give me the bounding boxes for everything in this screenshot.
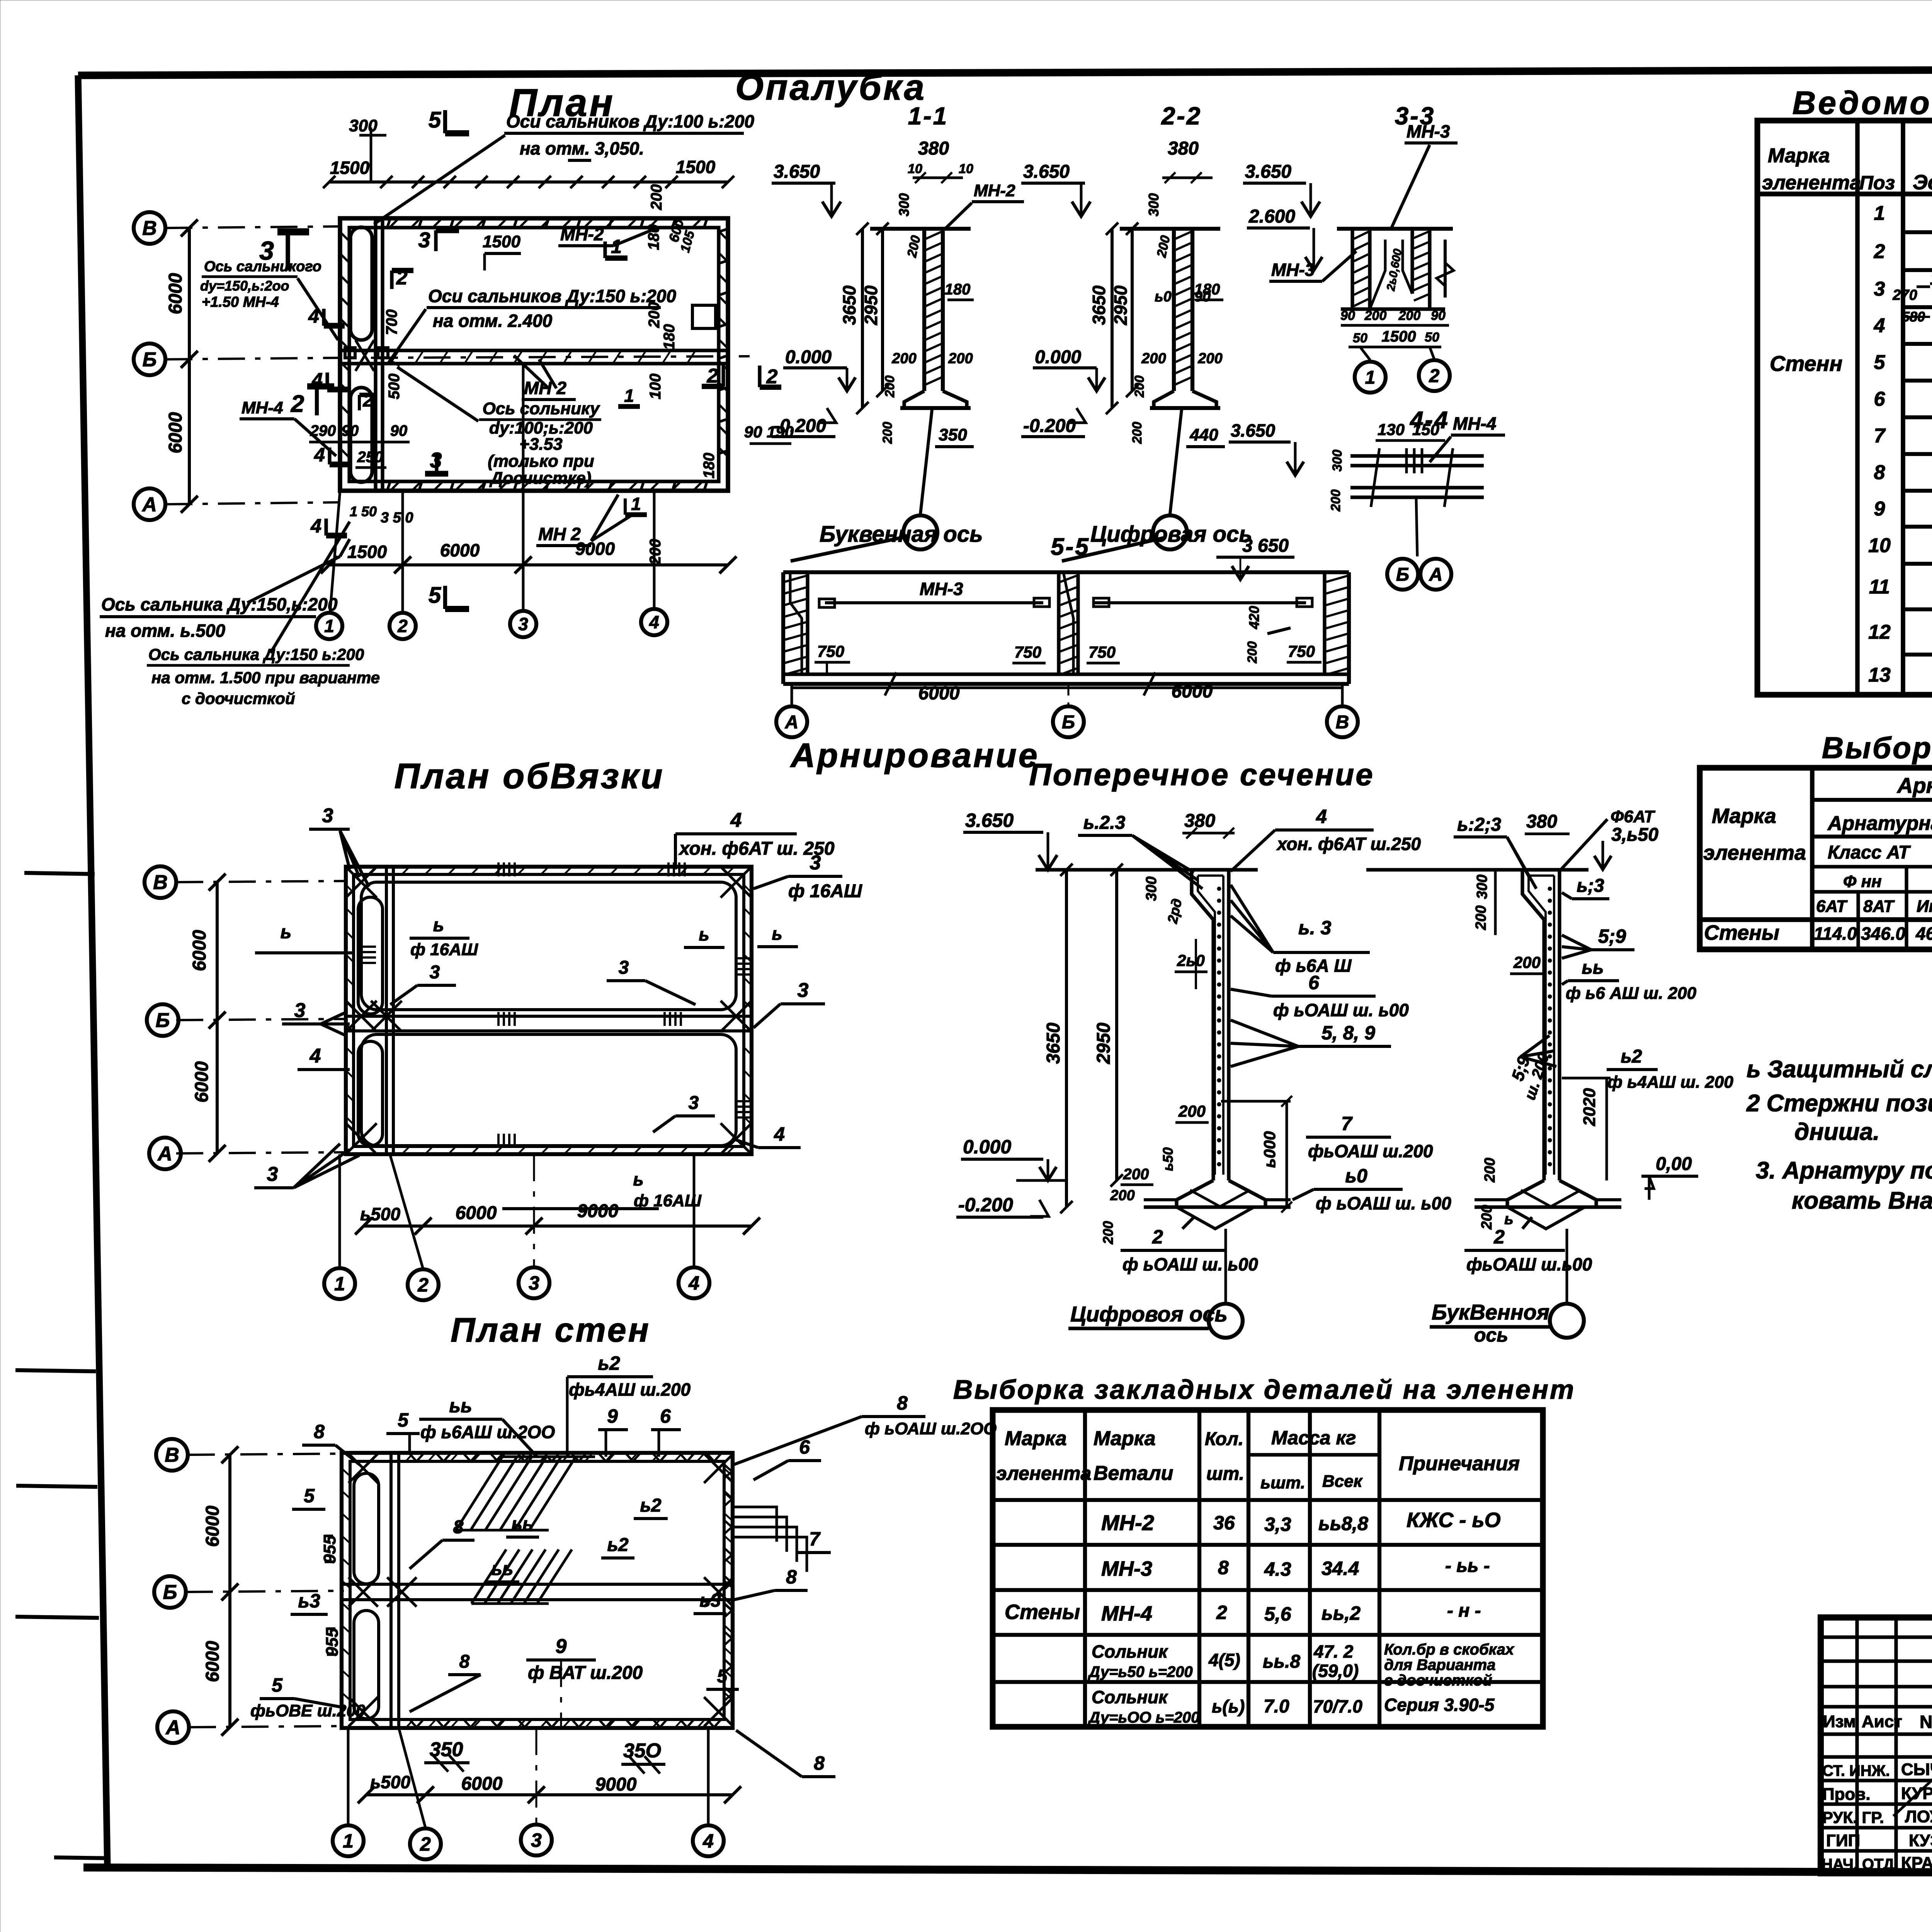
svg-text:Поперечное сечение: Поперечное сечение bbox=[1029, 757, 1374, 792]
svg-text:3.650: 3.650 bbox=[1023, 162, 1070, 182]
svg-text:фьОАШ ш.200: фьОАШ ш.200 bbox=[1308, 1141, 1433, 1161]
obvyazki left dim 6000 6000 bbox=[216, 882, 219, 1153]
svg-text:фьОВЕ ш.200: фьОВЕ ш.200 bbox=[250, 1701, 366, 1720]
table zakladnye header split massa bbox=[1248, 1453, 1379, 1456]
svg-text:ф 16АШ: ф 16АШ bbox=[634, 1191, 702, 1210]
svg-text:380: 380 bbox=[1168, 138, 1199, 159]
plan top dimension line bbox=[329, 180, 728, 184]
obvyazki corner braces bbox=[346, 867, 377, 898]
obvyazki wall tick combs bbox=[497, 862, 500, 876]
svg-text:Ведомость стержней на эленен: Ведомость стержней на эленент bbox=[1793, 85, 1932, 121]
svg-text:ф ь6 АШ ш. 200: ф ь6 АШ ш. 200 bbox=[1566, 984, 1697, 1003]
svg-text:МН-2: МН-2 bbox=[560, 224, 604, 244]
obvyazki axis circle B bbox=[147, 1004, 179, 1036]
plan axis circle B bbox=[134, 344, 165, 375]
svg-text:4: 4 bbox=[730, 809, 742, 832]
svg-text:Опалубка: Опалубка bbox=[735, 67, 926, 107]
svg-text:460.0: 460.0 bbox=[1915, 923, 1932, 944]
svg-text:200: 200 bbox=[646, 302, 663, 328]
svg-text:8: 8 bbox=[1218, 1557, 1229, 1578]
svg-text:2 Стержни позиций 7, ьа 2: 2 Стержни позиций 7, ьа 2 закладываются … bbox=[1746, 1090, 1932, 1117]
plansten wall hatch left bbox=[342, 1468, 350, 1476]
section 5-5 break marks on bottom dim bbox=[885, 672, 896, 696]
svg-text:2: 2 bbox=[1216, 1602, 1227, 1623]
svg-text:2: 2 bbox=[291, 391, 304, 417]
svg-text:6: 6 bbox=[1308, 972, 1320, 993]
svg-text:200: 200 bbox=[1245, 641, 1260, 664]
svg-text:10: 10 bbox=[959, 162, 973, 176]
svg-text:440: 440 bbox=[1189, 425, 1218, 444]
plan tank outer wall rectangle bbox=[340, 218, 728, 491]
svg-text:А: А bbox=[785, 712, 799, 733]
plansten axis circle B bbox=[154, 1576, 186, 1608]
svg-text:5, 8, 9: 5, 8, 9 bbox=[1321, 1022, 1375, 1044]
svg-text:0.000: 0.000 bbox=[963, 1136, 1011, 1158]
svg-text:ь: ь bbox=[772, 923, 782, 944]
svg-text:МН-4: МН-4 bbox=[1101, 1602, 1152, 1625]
svg-text:346.0: 346.0 bbox=[1861, 923, 1906, 944]
section 1-1 foot bbox=[904, 391, 967, 408]
svg-text:1500: 1500 bbox=[483, 232, 520, 251]
svg-text:180: 180 bbox=[701, 453, 718, 479]
section 2-2 wall with hatch bbox=[1172, 229, 1176, 391]
svg-text:3.650: 3.650 bbox=[1231, 420, 1276, 440]
svg-text:200: 200 bbox=[883, 376, 897, 398]
table zakladnye horizontals bbox=[993, 1498, 1543, 1502]
svg-text:ь2: ь2 bbox=[607, 1535, 629, 1555]
svg-text:Ось сальника Ду:150 ь:200: Ось сальника Ду:150 ь:200 bbox=[148, 645, 364, 663]
svg-text:200: 200 bbox=[1110, 1187, 1134, 1204]
svg-text:500: 500 bbox=[386, 374, 403, 400]
plansten diagonal rebar bundle middle bbox=[471, 1549, 506, 1604]
section 4-4 axis circle A bbox=[1420, 559, 1451, 590]
svg-text:ГИП: ГИП bbox=[1826, 1831, 1860, 1850]
svg-text:эленента: эленента bbox=[1703, 841, 1806, 864]
svg-text:Марка: Марка bbox=[1094, 1427, 1156, 1450]
plan dim 300 top left bbox=[359, 134, 386, 137]
plan axis circle A bbox=[134, 488, 165, 520]
svg-text:4: 4 bbox=[774, 1123, 785, 1145]
section 2-2 axis leader circle bbox=[1170, 410, 1182, 514]
section 1-1 dimension verticals 3650 2950 bbox=[861, 229, 864, 408]
svg-text:МН-4: МН-4 bbox=[241, 398, 283, 417]
plansten capsule bottom bbox=[354, 1611, 379, 1719]
svg-text:3 650: 3 650 bbox=[1242, 536, 1289, 556]
svg-text:ф 16АШ: ф 16АШ bbox=[410, 940, 478, 959]
plansten column circle 3 bbox=[521, 1825, 552, 1855]
svg-text:ф ь4АШ ш. 200: ф ь4АШ ш. 200 bbox=[1607, 1073, 1733, 1092]
svg-text:1: 1 bbox=[624, 386, 634, 406]
svg-text:ьь,2: ьь,2 bbox=[1321, 1602, 1361, 1624]
svg-text:Стены: Стены bbox=[1704, 921, 1779, 944]
svg-text:Серия 3.90-5: Серия 3.90-5 bbox=[1384, 1695, 1495, 1715]
svg-text:БукВенноя: БукВенноя bbox=[1432, 1300, 1549, 1324]
plan wall sleeve tick marks bottom wall bbox=[387, 481, 390, 491]
svg-text:ьь.8: ьь.8 bbox=[1263, 1651, 1300, 1672]
svg-text:1: 1 bbox=[324, 616, 334, 636]
svg-text:В: В bbox=[153, 871, 168, 894]
svg-text:350: 350 bbox=[939, 425, 967, 444]
svg-text:180: 180 bbox=[661, 324, 678, 350]
svg-text:200: 200 bbox=[1197, 350, 1222, 367]
svg-text:ь:2;3: ь:2;3 bbox=[1457, 815, 1501, 835]
svg-text:МН 2: МН 2 bbox=[524, 378, 566, 398]
svg-text:300: 300 bbox=[1330, 450, 1345, 472]
svg-text:200: 200 bbox=[891, 350, 916, 367]
svg-text:90: 90 bbox=[1194, 289, 1211, 305]
obvyazki bottom leaders to circles bbox=[338, 1154, 341, 1267]
section 5-5 middle wall bbox=[1057, 572, 1060, 674]
svg-text:4(5): 4(5) bbox=[1208, 1650, 1240, 1670]
svg-text:750: 750 bbox=[1088, 643, 1116, 661]
svg-text:NДОКУМ: NДОКУМ bbox=[1920, 1712, 1932, 1732]
svg-text:4: 4 bbox=[1316, 806, 1327, 827]
svg-text:А: А bbox=[141, 493, 157, 516]
section 2-2 foot bbox=[1154, 391, 1216, 408]
svg-text:Арнатурные изделия: Арнатурные изделия bbox=[1896, 773, 1932, 798]
svg-text:ф ь6АШ ш.2ОО: ф ь6АШ ш.2ОО bbox=[420, 1422, 555, 1442]
svg-text:2: 2 bbox=[1429, 366, 1440, 386]
svg-text:300: 300 bbox=[896, 193, 912, 216]
svg-text:дниша.: дниша. bbox=[1794, 1119, 1879, 1145]
svg-text:6: 6 bbox=[1874, 388, 1886, 410]
svg-text:50: 50 bbox=[1425, 330, 1439, 345]
svg-text:6000: 6000 bbox=[165, 273, 186, 314]
svg-text:4.3: 4.3 bbox=[1264, 1558, 1291, 1580]
svg-text:МН-4: МН-4 bbox=[1453, 413, 1496, 434]
plan left dimension line 6000/6000 bbox=[188, 228, 191, 504]
svg-text:ь500: ь500 bbox=[370, 1772, 410, 1792]
svg-text:ь500: ь500 bbox=[360, 1204, 400, 1224]
svg-text:10: 10 bbox=[908, 162, 922, 176]
svg-text:3: 3 bbox=[294, 999, 306, 1022]
svg-text:8: 8 bbox=[453, 1517, 464, 1537]
plansten column circle 1 bbox=[333, 1825, 364, 1856]
svg-text:3,3: 3,3 bbox=[1264, 1514, 1291, 1535]
svg-text:150: 150 bbox=[1412, 420, 1439, 439]
svg-text:3 5 0: 3 5 0 bbox=[381, 510, 413, 526]
svg-text:6000: 6000 bbox=[918, 683, 960, 704]
svg-text:70/7.0: 70/7.0 bbox=[1313, 1696, 1362, 1716]
svg-text:955: 955 bbox=[320, 1535, 339, 1564]
svg-text:Б: Б bbox=[163, 1581, 177, 1604]
plansten wall zigzag hatch bottom bbox=[410, 1719, 423, 1727]
svg-text:ь: ь bbox=[1504, 1211, 1514, 1228]
cross-section left dim verticals bbox=[1065, 870, 1068, 1207]
svg-text:ь.2.3: ь.2.3 bbox=[1083, 813, 1126, 833]
svg-text:Ось сольнику: Ось сольнику bbox=[483, 399, 600, 418]
svg-text:4: 4 bbox=[1874, 315, 1885, 337]
cross-section right wall bbox=[1542, 920, 1546, 1180]
svg-text:Арнирование: Арнирование bbox=[790, 736, 1039, 774]
section 4-4 axis circle B bbox=[1387, 559, 1418, 590]
svg-text:ь Защитный слой Бетона —: ь Защитный слой Бетона — 20 нн bbox=[1747, 1056, 1932, 1083]
svg-text:хон. ф6АТ ш.250: хон. ф6АТ ш.250 bbox=[1276, 834, 1421, 854]
plansten wall hatch right bbox=[724, 1468, 733, 1476]
svg-text:эленента: эленента bbox=[1762, 172, 1861, 194]
plan wall tick marks right wall bbox=[719, 229, 728, 232]
section 1-1 top slab line bbox=[870, 227, 971, 231]
svg-text:34.4: 34.4 bbox=[1321, 1558, 1359, 1579]
table vyborka metalla horizontals bbox=[1812, 798, 1932, 802]
plansten right stepped bars bbox=[733, 1507, 777, 1542]
svg-text:6000: 6000 bbox=[165, 412, 186, 453]
svg-text:8АТ: 8АТ bbox=[1863, 897, 1895, 916]
svg-text:1 50: 1 50 bbox=[350, 503, 377, 519]
svg-text:Аист: Аист bbox=[1862, 1712, 1902, 1731]
svg-text:на отм. ь.500: на отм. ь.500 bbox=[105, 621, 225, 641]
svg-text:3.650: 3.650 bbox=[965, 810, 1014, 831]
svg-text:Б: Б bbox=[143, 349, 157, 371]
svg-text:ьь: ьь bbox=[512, 1514, 534, 1534]
section 2-2 top slab line bbox=[1120, 227, 1220, 231]
svg-text:ф ьОАШ ш. ь00: ф ьОАШ ш. ь00 bbox=[1316, 1193, 1451, 1213]
section 2-2 dimension verticals 3650 2950 bbox=[1111, 229, 1114, 408]
svg-text:В: В bbox=[165, 1444, 179, 1466]
plan bottom dimension line bbox=[329, 563, 728, 566]
svg-text:+3.53: +3.53 bbox=[519, 435, 562, 454]
plansten outer rectangle walls bbox=[342, 1453, 733, 1728]
obvyazki wall hatch right bbox=[744, 885, 752, 893]
plan axis dash-dot lines bbox=[165, 226, 340, 228]
plansten column circle 2 bbox=[410, 1828, 441, 1859]
svg-text:НАЧ. ОТД.: НАЧ. ОТД. bbox=[1821, 1856, 1898, 1873]
svg-text:6000: 6000 bbox=[189, 930, 210, 971]
svg-text:3: 3 bbox=[689, 1093, 699, 1113]
plansten internal vertical wall bbox=[389, 1453, 393, 1728]
table zakladnye outer bbox=[993, 1410, 1543, 1727]
titleblock outer bbox=[1821, 1617, 1932, 1873]
plansten left dim 6000 6000 bbox=[228, 1455, 231, 1727]
svg-text:300: 300 bbox=[1474, 874, 1490, 899]
svg-text:6000: 6000 bbox=[456, 1203, 497, 1223]
cross-section right axis circle bbox=[1566, 1229, 1568, 1303]
svg-text:200: 200 bbox=[1178, 1102, 1206, 1120]
svg-text:50: 50 bbox=[1353, 331, 1367, 345]
plan column circle 3 bbox=[510, 611, 536, 637]
svg-text:Марка: Марка bbox=[1005, 1427, 1067, 1450]
svg-text:ф ьОАШ ш.2ОО: ф ьОАШ ш.2ОО bbox=[865, 1419, 997, 1438]
svg-text:35О: 35О bbox=[623, 1740, 661, 1762]
obvyazki axis circle V bbox=[145, 866, 176, 898]
svg-text:90: 90 bbox=[1340, 308, 1355, 323]
svg-text:ьь: ьь bbox=[492, 1559, 514, 1579]
obvyazki inner cell outline bottom bbox=[361, 1034, 736, 1146]
plansten internal horizontal wall bbox=[342, 1583, 733, 1586]
svg-text:5: 5 bbox=[429, 583, 441, 608]
svg-text:Итого: Итого bbox=[1917, 897, 1932, 916]
svg-text:8: 8 bbox=[786, 1566, 797, 1588]
svg-text:5,6: 5,6 bbox=[1264, 1603, 1292, 1625]
svg-text:В: В bbox=[142, 217, 157, 240]
cross-section left wall bbox=[1211, 920, 1215, 1180]
svg-text:5: 5 bbox=[717, 1666, 728, 1687]
cross-section left wall head bbox=[1192, 870, 1213, 920]
svg-text:2: 2 bbox=[417, 1274, 429, 1296]
svg-text:9000: 9000 bbox=[595, 1774, 637, 1795]
svg-text:ф ьОАШ ш. ь00: ф ьОАШ ш. ь00 bbox=[1273, 1000, 1409, 1020]
svg-text:ь2: ь2 bbox=[1621, 1046, 1642, 1067]
svg-text:ь3: ь3 bbox=[699, 1590, 721, 1611]
titleblock left columns bbox=[1855, 1617, 1859, 1873]
plansten bottom dim line bbox=[366, 1793, 733, 1796]
svg-text:2950: 2950 bbox=[861, 285, 881, 325]
plan column circle 2 bbox=[389, 613, 416, 639]
svg-text:Эскиз или сечение: Эскиз или сечение bbox=[1913, 171, 1932, 194]
svg-text:700: 700 bbox=[383, 310, 400, 335]
svg-text:Стенн: Стенн bbox=[1770, 351, 1842, 376]
svg-text:6000: 6000 bbox=[202, 1641, 223, 1682]
svg-text:200: 200 bbox=[1513, 953, 1541, 971]
section 5-5 right end wall bbox=[1347, 572, 1351, 684]
svg-text:фь4АШ ш.200: фь4АШ ш.200 bbox=[569, 1379, 690, 1400]
svg-text:-0.200: -0.200 bbox=[774, 416, 826, 436]
svg-text:5;9: 5;9 bbox=[1598, 925, 1626, 947]
svg-text:8: 8 bbox=[814, 1752, 825, 1774]
svg-text:8: 8 bbox=[459, 1651, 470, 1672]
svg-text:эленента: эленента bbox=[996, 1463, 1091, 1484]
svg-text:114.0: 114.0 bbox=[1814, 923, 1857, 944]
plan axis circle V bbox=[134, 212, 165, 244]
cross-section right rebar dots bbox=[1548, 887, 1552, 891]
obvyazki internal horizontal wall bbox=[346, 1015, 752, 1018]
svg-text:3: 3 bbox=[529, 1272, 539, 1294]
plansten axis dash-dot lines bbox=[188, 1454, 344, 1455]
svg-text:130: 130 bbox=[1378, 420, 1405, 439]
svg-text:270: 270 bbox=[1892, 287, 1917, 303]
svg-text:МН-3: МН-3 bbox=[1101, 1557, 1152, 1580]
svg-text:380: 380 bbox=[918, 138, 949, 159]
plan left column capsule opening top bbox=[350, 227, 372, 340]
svg-text:4: 4 bbox=[310, 1045, 321, 1067]
svg-text:8: 8 bbox=[314, 1421, 325, 1442]
svg-text:9: 9 bbox=[556, 1635, 567, 1658]
svg-text:12: 12 bbox=[1868, 621, 1891, 643]
section 3-3 grid circle 2 bbox=[1430, 347, 1434, 359]
svg-text:-0.200: -0.200 bbox=[958, 1194, 1013, 1216]
svg-text:-0.200: -0.200 bbox=[1023, 416, 1076, 436]
svg-text:1500: 1500 bbox=[676, 157, 716, 177]
svg-text:ьшт.: ьшт. bbox=[1260, 1473, 1305, 1492]
section 4-4 slab plan lines bbox=[1350, 454, 1484, 457]
svg-text:Б: Б bbox=[156, 1009, 170, 1032]
svg-text:ь: ь bbox=[699, 924, 709, 944]
svg-text:ь000: ь000 bbox=[1260, 1131, 1279, 1168]
obvyazki wall hatch top bbox=[402, 867, 410, 874]
svg-text:9000: 9000 bbox=[575, 539, 615, 559]
svg-text:ь: ь bbox=[281, 922, 292, 942]
svg-text:200: 200 bbox=[1132, 376, 1147, 398]
svg-text:2: 2 bbox=[1493, 1226, 1505, 1248]
obvyazki capsule bottom bbox=[358, 1041, 383, 1146]
svg-text:3: 3 bbox=[259, 236, 274, 265]
svg-text:на отм. 3,050.: на отм. 3,050. bbox=[520, 138, 644, 158]
svg-text:на отм. 1.500 при варианте: на отм. 1.500 при варианте bbox=[151, 668, 380, 687]
svg-text:200: 200 bbox=[1364, 308, 1387, 323]
svg-text:380: 380 bbox=[1526, 811, 1557, 832]
svg-text:200: 200 bbox=[1479, 1205, 1495, 1230]
svg-text:750: 750 bbox=[1288, 642, 1315, 660]
svg-text:Сольник: Сольник bbox=[1092, 1641, 1168, 1662]
plan wall hatch mid bbox=[390, 350, 399, 364]
svg-text:5: 5 bbox=[304, 1485, 315, 1507]
plansten wall zigzag hatch right bbox=[724, 1464, 732, 1478]
svg-text:А: А bbox=[165, 1716, 180, 1739]
svg-text:2-2: 2-2 bbox=[1161, 102, 1202, 130]
svg-text:Принечания: Принечания bbox=[1399, 1452, 1520, 1475]
svg-text:3: 3 bbox=[798, 979, 809, 1002]
svg-text:90: 90 bbox=[390, 422, 408, 439]
svg-text:200: 200 bbox=[1482, 1158, 1498, 1182]
svg-text:180: 180 bbox=[645, 224, 662, 250]
table vyborka metalla verticals bbox=[1810, 768, 1815, 949]
plan junction openings at B wall bbox=[345, 348, 355, 358]
svg-text:200: 200 bbox=[1100, 1221, 1116, 1245]
section 5-5 axis circle A bbox=[791, 684, 793, 706]
obvyazki internal vertical wall bbox=[385, 867, 388, 1154]
obvyazki wall hatch left bbox=[346, 885, 354, 893]
plansten wall hatch top bbox=[406, 1453, 413, 1461]
svg-text:36: 36 bbox=[1213, 1512, 1235, 1534]
svg-text:РУК. ГР.: РУК. ГР. bbox=[1822, 1808, 1884, 1827]
svg-text:5: 5 bbox=[272, 1674, 283, 1696]
section 5-5 left end wall bbox=[781, 572, 785, 684]
plansten axis circle A bbox=[157, 1711, 189, 1743]
svg-text:1500: 1500 bbox=[1382, 328, 1416, 345]
svg-text:ь2: ь2 bbox=[640, 1495, 662, 1516]
svg-text:ь: ь bbox=[633, 1169, 643, 1189]
cross-section left foot bbox=[1177, 1180, 1213, 1207]
svg-text:10: 10 bbox=[1868, 534, 1891, 557]
svg-text:КУЗНЕЦОВ: КУЗНЕЦОВ bbox=[1909, 1831, 1932, 1850]
svg-text:2.600: 2.600 bbox=[1248, 206, 1295, 227]
svg-text:МН-3: МН-3 bbox=[920, 579, 963, 599]
svg-text:3: 3 bbox=[322, 804, 333, 827]
svg-text:Марка: Марка bbox=[1768, 145, 1830, 167]
svg-text:Ось сальника Ду:150,ь:200: Ось сальника Ду:150,ь:200 bbox=[101, 594, 338, 614]
svg-text:ф 16АШ: ф 16АШ bbox=[788, 881, 862, 901]
plan wall hatch right bbox=[719, 232, 728, 240]
svg-text:6000: 6000 bbox=[440, 540, 480, 560]
svg-text:9: 9 bbox=[1874, 498, 1885, 520]
plansten bottom leaders to circles bbox=[347, 1728, 350, 1825]
plansten column circle 4 bbox=[693, 1825, 724, 1856]
svg-text:3: 3 bbox=[267, 1163, 278, 1185]
svg-text:Выборка закладных деталей на э: Выборка закладных деталей на эленент bbox=[953, 1374, 1576, 1405]
plan wall hatch left bbox=[340, 232, 349, 240]
svg-text:4: 4 bbox=[688, 1272, 699, 1294]
svg-text:3650: 3650 bbox=[1089, 285, 1109, 325]
table zakladnye verticals bbox=[1083, 1410, 1087, 1727]
svg-text:3650: 3650 bbox=[1043, 1022, 1064, 1064]
svg-text:3: 3 bbox=[1874, 278, 1885, 300]
svg-text:Поз: Поз bbox=[1859, 172, 1895, 194]
svg-text:3.650: 3.650 bbox=[1245, 162, 1291, 182]
svg-text:dу=150,ь:2оо: dу=150,ь:2оо bbox=[200, 278, 289, 294]
svg-text:300: 300 bbox=[1143, 876, 1160, 901]
svg-text:2: 2 bbox=[1874, 240, 1885, 263]
plan internal vertical wall of left column bbox=[374, 218, 377, 491]
plan left column capsule opening bottom bbox=[350, 388, 372, 482]
svg-text:11: 11 bbox=[1869, 576, 1890, 598]
obvyazki axis dash-dot lines bbox=[176, 881, 348, 882]
svg-text:А: А bbox=[157, 1143, 172, 1165]
obvyazki column circle 2 bbox=[408, 1269, 439, 1300]
plan wall hatch top bbox=[390, 218, 399, 227]
cross-section right top level line bbox=[1366, 868, 1588, 871]
svg-text:750: 750 bbox=[1014, 643, 1041, 661]
svg-text:Б: Б bbox=[1062, 712, 1075, 733]
